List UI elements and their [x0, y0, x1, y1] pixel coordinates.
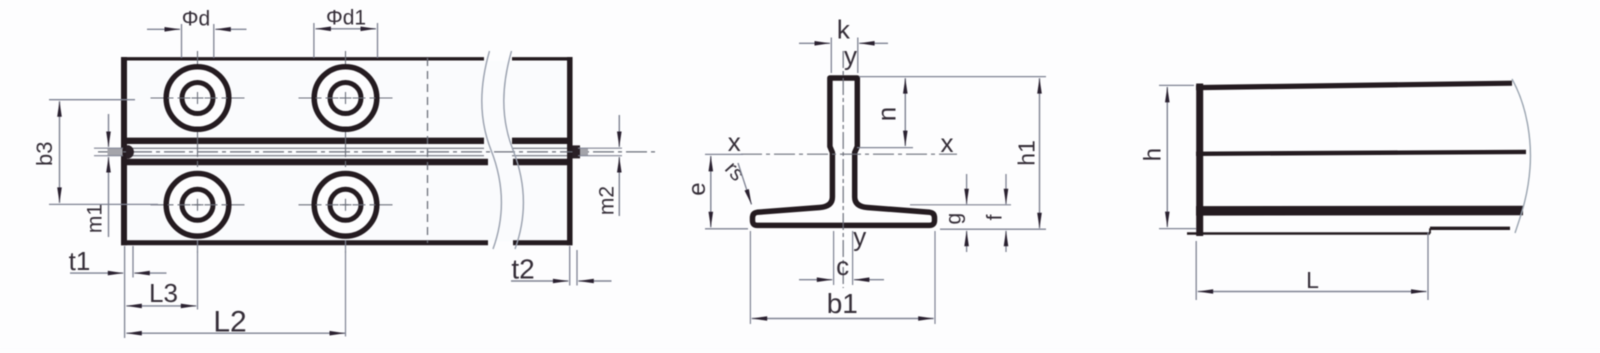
dim m1 extension lines: [94, 147, 123, 149]
break wave right: [504, 51, 524, 249]
svg-text:L: L: [1306, 267, 1319, 293]
dim t1 arrows: [70, 272, 123, 274]
hole bottom-left bore circle: [182, 189, 213, 220]
break wave left: [482, 51, 502, 249]
dim c arrows: [799, 279, 832, 281]
dashed section line: [427, 58, 429, 243]
dim e line: [710, 156, 712, 227]
dim f arrows: [1005, 174, 1007, 204]
dim L2 extension line: [345, 240, 347, 337]
hole top-right counterbore circle: [314, 67, 377, 130]
hole bottom-left counterbore circle: [166, 174, 229, 237]
dim L3 extension line: [197, 240, 199, 310]
side view mid line: [1196, 152, 1526, 154]
svg-text:f: f: [984, 214, 1007, 220]
dim Φd extension lines: [181, 24, 183, 58]
hole top-left center cross: [192, 97, 204, 99]
dim t2 extension lines: [569, 246, 571, 286]
dim g arrows: [966, 174, 968, 204]
shaft lower silhouette line: [127, 155, 484, 157]
dim b3 line: [59, 101, 61, 203]
hole bottom-right center cross: [340, 204, 352, 206]
svg-text:m2: m2: [596, 186, 619, 215]
right shaft stub: [580, 149, 588, 156]
hole bottom-right centerlines: [299, 204, 393, 206]
dim Φd1 arrows: [315, 28, 376, 30]
svg-text:Φd: Φd: [182, 8, 210, 31]
dim Φd1 extension lines: [313, 23, 315, 58]
side view break curve: [1512, 79, 1530, 233]
hole bottom-left centerlines: [151, 204, 245, 206]
side view bottom right segment: [1430, 227, 1510, 230]
dim g extension line: [910, 204, 1011, 206]
svg-text:t2: t2: [511, 254, 534, 285]
shaft upper silhouette line: [127, 147, 484, 149]
plate top edge: [121, 57, 484, 60]
left shaft end cap: [126, 145, 134, 158]
svg-text:L2: L2: [213, 306, 246, 339]
svg-text:t1: t1: [69, 246, 91, 276]
hole top-right centerlines: [299, 97, 393, 99]
svg-text:e: e: [684, 182, 711, 195]
plate interior fill: [127, 61, 567, 241]
plate left edge: [121, 57, 127, 245]
dim c extension lines: [833, 231, 835, 285]
svg-text:x: x: [941, 128, 954, 158]
hole column centerline right: [345, 51, 347, 253]
hole bottom-right counterbore circle: [314, 174, 377, 237]
svg-text:n: n: [871, 107, 901, 121]
dim b1 extension lines: [749, 231, 751, 324]
side view bottom line: [1187, 232, 1430, 235]
svg-text:Φd1: Φd1: [326, 7, 366, 30]
rail groove upper line: [124, 138, 484, 144]
rs leader arrow: [738, 163, 752, 205]
svg-text:L3: L3: [149, 278, 178, 308]
hole top-left counterbore circle: [166, 67, 229, 130]
dim b3 extension lines: [49, 99, 135, 101]
svg-text:x: x: [728, 127, 741, 157]
left shaft stub: [108, 149, 123, 156]
hole top-right center cross: [340, 97, 352, 99]
dim Φd arrows: [147, 28, 180, 30]
dim m2 arrows: [618, 115, 620, 147]
svg-text:m1: m1: [84, 204, 107, 233]
dim L3 line: [126, 305, 196, 307]
dim e extension lines: [705, 153, 743, 155]
side view top edge: [1196, 83, 1512, 87]
right shaft end cap: [573, 145, 581, 158]
dim m2 extension lines: [578, 147, 622, 149]
hole bottom-right bore circle: [330, 189, 361, 220]
rail groove lower line: [124, 159, 488, 165]
dim L line: [1198, 291, 1427, 293]
dim t1 extension lines: [124, 246, 126, 338]
svg-text:h: h: [1140, 148, 1167, 161]
T-profile outline: [753, 78, 935, 225]
dim h1 extension line bottom: [940, 228, 1046, 230]
plate right edge: [567, 57, 573, 245]
svg-text:y: y: [853, 222, 866, 252]
hole column centerline left: [197, 51, 199, 253]
section horizontal centerline x-x: [741, 153, 957, 155]
section vertical centerline y-y: [842, 51, 844, 288]
side view bottom step: [1429, 228, 1431, 233]
plate bottom edge: [121, 240, 488, 245]
svg-text:h1: h1: [1014, 140, 1040, 166]
dim h line: [1166, 87, 1168, 227]
dim n line: [904, 78, 906, 146]
dim k arrows: [799, 42, 830, 44]
dim k extension lines: [830, 38, 832, 74]
main horizontal centerline: [98, 151, 658, 153]
hole bottom-left center cross: [192, 204, 204, 206]
svg-text:b3: b3: [32, 141, 57, 165]
hole top-left centerlines: [151, 97, 245, 99]
side view lower thick line: [1196, 206, 1523, 216]
dim t2 arrows: [511, 280, 568, 282]
side view left edge: [1196, 84, 1203, 237]
hole top-right bore circle: [330, 83, 361, 114]
dim h extension lines: [1159, 84, 1194, 86]
dim m1 arrows: [108, 114, 110, 147]
svg-text:y: y: [844, 41, 857, 71]
dim n extension lines: [859, 76, 1046, 78]
dim b1 line: [752, 318, 934, 320]
svg-text:c: c: [836, 251, 849, 281]
dim h1 line: [1039, 78, 1041, 228]
dim L extension lines: [1195, 241, 1197, 300]
hole top-left bore circle: [182, 83, 213, 114]
svg-text:b1: b1: [827, 288, 858, 319]
svg-text:g: g: [943, 213, 966, 225]
dim L2 line: [126, 332, 345, 334]
